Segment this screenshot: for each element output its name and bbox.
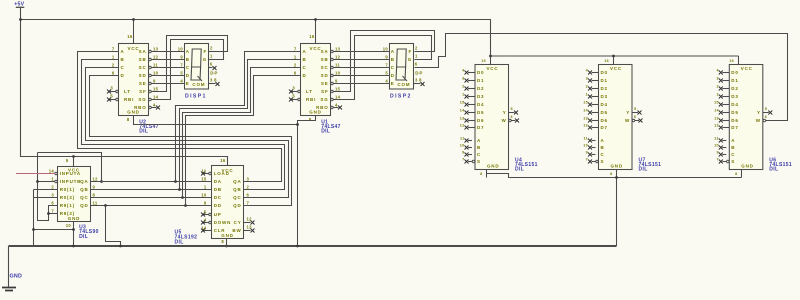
svg-text:RBI: RBI (124, 97, 134, 102)
svg-text:A: A (477, 138, 481, 143)
svg-text:1: 1 (462, 92, 464, 96)
svg-text:6: 6 (210, 62, 213, 67)
svg-text:D2: D2 (731, 86, 738, 91)
svg-text:UP: UP (214, 212, 222, 217)
svg-text:GND: GND (221, 233, 233, 238)
svg-text:G: G (408, 57, 412, 62)
svg-text:7: 7 (112, 47, 115, 52)
svg-text:1: 1 (210, 53, 213, 58)
svg-text:Y: Y (757, 110, 761, 115)
svg-text:DB: DB (214, 187, 222, 192)
svg-text:Y: Y (626, 110, 630, 115)
svg-text:DIL: DIL (139, 129, 148, 135)
svg-text:7: 7 (462, 157, 464, 161)
svg-text:VCC: VCC (128, 46, 140, 51)
svg-text:DIL: DIL (639, 166, 648, 172)
svg-text:10: 10 (383, 47, 389, 52)
svg-text:5: 5 (385, 71, 388, 76)
svg-text:S: S (731, 159, 735, 164)
svg-text:11: 11 (93, 200, 98, 205)
svg-text:9: 9 (716, 150, 718, 154)
svg-text:1: 1 (586, 92, 588, 96)
svg-text:7: 7 (51, 208, 54, 213)
svg-text:GND: GND (10, 274, 23, 280)
svg-text:D: D (121, 73, 125, 78)
svg-text:12: 12 (247, 216, 253, 221)
svg-text:8: 8 (221, 239, 224, 244)
svg-text:SA: SA (321, 49, 329, 54)
svg-text:1: 1 (716, 92, 718, 96)
svg-text:CY: CY (234, 220, 242, 225)
svg-text:13: 13 (247, 224, 253, 229)
svg-text:1: 1 (51, 176, 54, 181)
svg-text:15: 15 (201, 176, 207, 181)
svg-text:A: A (731, 138, 735, 143)
svg-text:D1: D1 (477, 78, 484, 83)
svg-text:D0: D0 (731, 70, 738, 75)
svg-text:QD: QD (80, 203, 88, 208)
svg-text:10: 10 (66, 223, 72, 228)
svg-text:D7: D7 (601, 125, 608, 130)
svg-text:C: C (303, 65, 307, 70)
svg-text:QD: QD (233, 203, 241, 208)
svg-text:1: 1 (204, 184, 207, 189)
svg-text:GND: GND (309, 110, 321, 115)
svg-text:16: 16 (604, 59, 609, 63)
svg-text:QB: QB (80, 187, 88, 192)
svg-text:2: 2 (415, 45, 418, 50)
svg-text:VCC: VCC (741, 66, 753, 71)
svg-text:B: B (186, 57, 190, 62)
svg-text:QB: QB (233, 187, 241, 192)
svg-text:1: 1 (415, 53, 418, 58)
svg-text:2: 2 (112, 63, 115, 68)
svg-text:2: 2 (210, 45, 213, 50)
svg-text:10: 10 (201, 192, 207, 197)
svg-text:12: 12 (153, 55, 159, 60)
svg-text:2: 2 (462, 84, 464, 88)
svg-text:D7: D7 (477, 125, 484, 130)
svg-text:SA: SA (139, 49, 147, 54)
svg-text:6: 6 (247, 192, 250, 197)
svg-text:16: 16 (220, 158, 226, 163)
svg-text:5: 5 (292, 93, 295, 98)
svg-text:G: G (203, 57, 207, 62)
svg-text:14: 14 (714, 108, 719, 112)
svg-text:RBI: RBI (306, 97, 316, 102)
svg-text:16: 16 (309, 34, 315, 39)
svg-text:6: 6 (765, 115, 767, 119)
svg-text:3: 3 (292, 85, 295, 90)
svg-text:SE: SE (139, 81, 147, 86)
svg-text:15: 15 (714, 100, 719, 104)
svg-text:10: 10 (178, 47, 184, 52)
svg-text:3 8: 3 8 (210, 77, 217, 82)
svg-text:D3: D3 (731, 94, 738, 99)
svg-text:A: A (121, 49, 125, 54)
svg-text:BW: BW (232, 228, 241, 233)
svg-text:DC: DC (214, 195, 222, 200)
svg-text:11: 11 (584, 136, 589, 140)
svg-text:A: A (186, 49, 190, 54)
svg-text:D6: D6 (477, 118, 484, 123)
svg-text:C: C (391, 65, 395, 70)
svg-text:INPUTB: INPUTB (60, 179, 82, 184)
svg-text:B: B (731, 145, 735, 150)
svg-text:2: 2 (294, 63, 297, 68)
svg-text:SG: SG (320, 97, 328, 102)
svg-text:13: 13 (714, 116, 719, 120)
svg-text:5: 5 (110, 93, 113, 98)
svg-text:11: 11 (714, 136, 719, 140)
svg-text:LT: LT (124, 89, 131, 94)
svg-text:14: 14 (335, 95, 341, 100)
svg-text:VCC: VCC (610, 66, 622, 71)
svg-text:10: 10 (583, 143, 588, 147)
svg-text:E: E (391, 81, 395, 86)
svg-text:5: 5 (180, 71, 183, 76)
svg-text:14: 14 (49, 168, 55, 173)
svg-text:A: A (391, 49, 395, 54)
svg-text:DIL: DIL (769, 166, 778, 172)
svg-text:5: 5 (511, 107, 513, 111)
svg-text:13: 13 (460, 116, 465, 120)
svg-text:D1: D1 (601, 78, 608, 83)
svg-text:10: 10 (714, 143, 719, 147)
svg-text:5: 5 (66, 158, 69, 163)
svg-text:9: 9 (153, 79, 156, 84)
svg-text:W: W (625, 118, 630, 123)
svg-text:3: 3 (247, 176, 250, 181)
svg-text:SD: SD (139, 73, 147, 78)
svg-text:R9(1): R9(1) (60, 203, 75, 208)
svg-text:VCC: VCC (68, 167, 80, 172)
svg-text:1: 1 (294, 55, 297, 60)
svg-text:SG: SG (138, 97, 146, 102)
svg-text:DIL: DIL (175, 239, 184, 245)
svg-text:B: B (477, 145, 481, 150)
svg-text:D2: D2 (601, 86, 608, 91)
svg-text:GND: GND (487, 164, 499, 169)
svg-text:4: 4 (153, 103, 156, 108)
svg-text:4: 4 (335, 103, 338, 108)
svg-text:GND: GND (127, 110, 139, 115)
svg-text:SF: SF (321, 89, 328, 94)
svg-text:C: C (731, 152, 735, 157)
svg-text:13: 13 (335, 47, 341, 52)
svg-text:D0: D0 (601, 70, 608, 75)
svg-text:COM: COM (192, 82, 205, 87)
svg-text:9: 9 (586, 150, 588, 154)
svg-text:C: C (121, 65, 125, 70)
svg-text:8: 8 (480, 172, 482, 176)
svg-text:D4: D4 (477, 102, 484, 107)
svg-text:5: 5 (765, 107, 767, 111)
svg-text:6: 6 (112, 71, 115, 76)
svg-text:B: B (391, 57, 395, 62)
svg-text:F: F (203, 49, 207, 54)
svg-text:16: 16 (127, 34, 133, 39)
svg-text:B: B (601, 145, 605, 150)
svg-text:QC: QC (233, 195, 241, 200)
svg-text:7: 7 (180, 63, 183, 68)
svg-text:B: B (121, 57, 125, 62)
svg-text:B: B (303, 57, 307, 62)
svg-text:2: 2 (586, 84, 588, 88)
svg-text:DISP1: DISP1 (185, 93, 207, 99)
svg-text:9: 9 (93, 184, 96, 189)
svg-text:12: 12 (335, 55, 341, 60)
svg-text:10: 10 (153, 71, 159, 76)
svg-text:13: 13 (153, 47, 159, 52)
svg-text:QA: QA (233, 179, 241, 184)
svg-text:1: 1 (112, 55, 115, 60)
svg-text:DISP2: DISP2 (390, 93, 412, 99)
svg-text:SC: SC (139, 65, 147, 70)
svg-text:D3: D3 (601, 94, 608, 99)
svg-text:8: 8 (93, 192, 96, 197)
svg-text:DIL: DIL (321, 129, 330, 135)
svg-text:9: 9 (385, 55, 388, 60)
svg-text:8: 8 (127, 117, 130, 122)
svg-text:D: D (303, 73, 307, 78)
svg-text:SE: SE (321, 81, 329, 86)
svg-text:DP: DP (415, 70, 423, 75)
svg-text:14: 14 (583, 108, 588, 112)
svg-text:10: 10 (460, 143, 465, 147)
svg-text:SD: SD (321, 73, 329, 78)
svg-text:9: 9 (462, 150, 464, 154)
svg-text:6: 6 (415, 62, 418, 67)
svg-text:DOWN: DOWN (214, 220, 231, 225)
svg-text:13: 13 (583, 116, 588, 120)
svg-text:12: 12 (460, 123, 465, 127)
svg-text:GND: GND (611, 164, 623, 169)
svg-text:S: S (601, 159, 605, 164)
svg-text:15: 15 (460, 100, 465, 104)
svg-text:SB: SB (321, 57, 329, 62)
svg-text:3: 3 (586, 76, 588, 80)
svg-text:SC: SC (321, 65, 329, 70)
svg-text:12: 12 (93, 176, 99, 181)
svg-text:D: D (391, 73, 395, 78)
svg-text:E: E (186, 81, 190, 86)
svg-text:15: 15 (153, 87, 159, 92)
svg-text:6: 6 (294, 71, 297, 76)
svg-text:D6: D6 (731, 118, 738, 123)
svg-text:6: 6 (51, 200, 54, 205)
svg-text:2: 2 (716, 84, 718, 88)
svg-text:10: 10 (335, 71, 341, 76)
svg-text:D4: D4 (731, 102, 738, 107)
svg-text:2: 2 (247, 184, 250, 189)
svg-text:VCC: VCC (222, 168, 234, 173)
svg-text:7: 7 (385, 63, 388, 68)
svg-text:16: 16 (481, 59, 486, 63)
svg-text:D4: D4 (601, 102, 608, 107)
svg-text:6: 6 (511, 115, 513, 119)
svg-text:8: 8 (309, 117, 312, 122)
svg-text:D6: D6 (601, 118, 608, 123)
svg-text:S: S (477, 159, 481, 164)
svg-text:QC: QC (80, 195, 88, 200)
svg-text:W: W (756, 118, 761, 123)
svg-text:9: 9 (335, 79, 338, 84)
svg-text:C: C (477, 152, 481, 157)
svg-text:12: 12 (583, 123, 588, 127)
svg-text:R0(1): R0(1) (60, 187, 75, 192)
svg-text:12: 12 (714, 123, 719, 127)
svg-text:11: 11 (153, 63, 158, 68)
svg-text:GND: GND (741, 164, 753, 169)
svg-text:8: 8 (735, 172, 737, 176)
svg-text:3 8: 3 8 (415, 77, 422, 82)
svg-text:16: 16 (729, 59, 734, 63)
svg-text:QA: QA (80, 179, 88, 184)
svg-text:W: W (501, 118, 506, 123)
svg-text:8: 8 (610, 172, 612, 176)
svg-text:A: A (601, 138, 605, 143)
svg-text:C: C (186, 65, 190, 70)
svg-text:3: 3 (51, 192, 54, 197)
svg-text:DIL: DIL (515, 166, 524, 172)
svg-text:2: 2 (51, 184, 54, 189)
svg-text:14: 14 (460, 108, 465, 112)
svg-text:7: 7 (586, 157, 588, 161)
svg-text:9: 9 (180, 55, 183, 60)
svg-text:4: 4 (180, 79, 183, 84)
svg-text:3: 3 (462, 76, 464, 80)
svg-text:5: 5 (634, 107, 636, 111)
svg-text:DD: DD (214, 203, 222, 208)
svg-text:D0: D0 (477, 70, 484, 75)
svg-text:D7: D7 (731, 125, 738, 130)
svg-text:Y: Y (503, 110, 507, 115)
svg-text:DA: DA (214, 179, 222, 184)
svg-text:VCC: VCC (487, 66, 499, 71)
svg-text:LT: LT (306, 89, 313, 94)
svg-text:D: D (186, 73, 190, 78)
svg-text:SB: SB (139, 57, 147, 62)
svg-text:D5: D5 (601, 110, 608, 115)
svg-text:9: 9 (204, 200, 207, 205)
svg-text:DP: DP (210, 70, 218, 75)
svg-text:11: 11 (335, 63, 340, 68)
svg-text:15: 15 (583, 100, 588, 104)
svg-text:D1: D1 (731, 78, 738, 83)
svg-text:A: A (303, 49, 307, 54)
svg-text:3: 3 (716, 76, 718, 80)
svg-text:3: 3 (110, 85, 113, 90)
svg-text:VCC: VCC (310, 46, 322, 51)
svg-text:6: 6 (634, 115, 636, 119)
svg-text:SF: SF (139, 89, 146, 94)
svg-text:DIL: DIL (79, 234, 88, 240)
svg-text:D2: D2 (477, 86, 484, 91)
svg-text:7: 7 (294, 47, 297, 52)
svg-text:C: C (601, 152, 605, 157)
svg-text:COM: COM (397, 82, 410, 87)
svg-text:14: 14 (153, 95, 159, 100)
svg-text:D3: D3 (477, 94, 484, 99)
svg-text:15: 15 (335, 87, 341, 92)
svg-text:D5: D5 (731, 110, 738, 115)
svg-text:4: 4 (385, 79, 388, 84)
svg-text:11: 11 (460, 136, 465, 140)
svg-text:GND: GND (68, 216, 80, 221)
svg-text:7: 7 (716, 157, 718, 161)
svg-text:D5: D5 (477, 110, 484, 115)
svg-text:R0(2): R0(2) (60, 195, 75, 200)
svg-text:F: F (408, 49, 412, 54)
svg-text:7: 7 (247, 200, 250, 205)
